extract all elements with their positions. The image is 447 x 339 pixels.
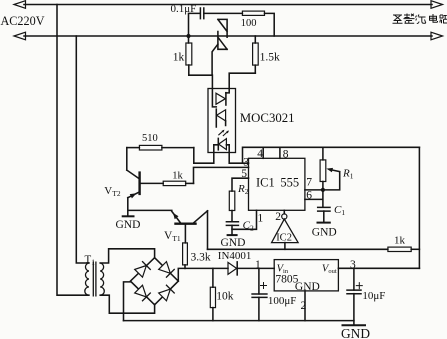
wire VT2 emitter to ground and VT1 [128, 198, 172, 217]
triac VS main [218, 19, 227, 49]
svg-text:MOC3021: MOC3021 [240, 111, 295, 125]
wire VT2 base to 1k [140, 182, 163, 184]
op-amp U1 MOC3021 optocoupler box [208, 89, 236, 153]
svg-text:2: 2 [275, 211, 281, 223]
svg-text:IC2: IC2 [276, 233, 292, 244]
resistor 1k (VT2 base) [163, 181, 186, 185]
wire snubber left riser [189, 13, 200, 36]
transistor Q1 VT1 [176, 222, 196, 224]
svg-text:7: 7 [306, 176, 312, 188]
ground GND (C1) [318, 222, 330, 224]
node plus sign 10uF [356, 283, 362, 289]
diode IN4001 [228, 262, 237, 274]
resistor 10k [210, 287, 215, 307]
wire 555 pin4 stub [262, 147, 264, 158]
diode bridge bottom-left [135, 285, 151, 301]
svg-text:5: 5 [241, 168, 247, 180]
svg-text:GND: GND [312, 227, 337, 239]
wire 1.5k bottom to MOC [226, 73, 255, 93]
capacitor C2 [226, 222, 238, 226]
svg-text:1k: 1k [172, 171, 183, 182]
wire secondary top to bridge [100, 249, 154, 263]
svg-text:IC1 555: IC1 555 [256, 176, 299, 190]
transistor Q2 VT2 [127, 148, 139, 179]
svg-text:6: 6 [306, 189, 312, 201]
svg-text:GND: GND [116, 219, 141, 231]
wire 1k bottom to gate node [189, 74, 212, 76]
wire 555 pin6 [305, 190, 323, 207]
svg-text:0.1μF: 0.1μF [171, 3, 197, 15]
node plus sign 100uF [261, 283, 267, 289]
wire VT1 base to 3.3k [184, 225, 186, 243]
svg-text:1k: 1k [394, 234, 406, 246]
wire R2 to 555 [232, 178, 249, 191]
wire 10k tap [212, 268, 214, 287]
triac MOC internal lower diode [217, 110, 226, 121]
svg-text:10k: 10k [216, 290, 234, 302]
svg-text:4: 4 [257, 148, 263, 160]
wire line1 to transformer primary bottom [57, 5, 89, 296]
svg-text:2: 2 [301, 300, 307, 312]
svg-text:AC220V: AC220V [1, 14, 45, 28]
resistor 510 [127, 147, 140, 149]
node junction dot pin7 [321, 188, 325, 192]
op-amp U2 IC1 555 box [249, 158, 305, 210]
resistor 1k (pullup) [388, 247, 411, 251]
transformer T1 core [93, 262, 96, 296]
svg-text:GND: GND [295, 281, 320, 293]
wire AC line 2 [24, 35, 432, 37]
node right arrow line2 [431, 32, 443, 40]
node right arrow line1 [431, 1, 443, 9]
diode bridge top-right [159, 262, 175, 278]
triac MOC internal upper diode [216, 93, 225, 104]
wire secondary bottom to bridge [100, 282, 154, 321]
node MOC emission arrows [219, 131, 228, 136]
svg-text:IN4001: IN4001 [218, 250, 252, 262]
wire VT1 collector down to trigger line [207, 211, 209, 250]
svg-text:3: 3 [243, 157, 249, 169]
wire bridge plus output [178, 268, 228, 281]
wire LED anode to 555 pin3 [229, 145, 248, 163]
resistor 1.5k [254, 36, 256, 43]
node left arrow line2 [14, 32, 26, 40]
wire 1k to 555 [194, 167, 249, 183]
wire 7805 pin2 ground [304, 291, 306, 321]
svg-text:GND: GND [341, 326, 370, 339]
wire 10uF tap [353, 268, 355, 290]
wire cap to resistor 100 [204, 12, 243, 14]
transformer T1 secondary [100, 263, 104, 295]
resistor 1k (left, line2 to gate) [188, 36, 190, 43]
svg-text:510: 510 [142, 133, 158, 144]
svg-text:100μF: 100μF [268, 295, 297, 307]
wire triac gate [212, 44, 218, 75]
svg-text:1: 1 [255, 259, 261, 271]
ground GND (VT2) [123, 215, 134, 217]
transformer T1 primary [85, 263, 89, 295]
svg-text:3.3k: 3.3k [191, 251, 211, 263]
wire LED cathode down-left [194, 145, 214, 163]
svg-text:GND: GND [221, 237, 246, 249]
svg-text:100: 100 [241, 18, 257, 29]
wire +5V top rail [243, 147, 420, 163]
ground GND (C2) [228, 234, 237, 236]
capacitor 100uF [252, 294, 267, 297]
node junction dot snubber on line2 [186, 34, 190, 38]
wire 100uF tap [258, 268, 260, 294]
wire bottom ground rail [124, 320, 354, 322]
ground GND (bottom right) [343, 324, 366, 326]
op-amp U3 IC2 inverter [283, 210, 285, 214]
node bridge diamond [130, 258, 178, 305]
node left arrow line1 [14, 1, 26, 9]
wire 555 pin8 stub [279, 147, 281, 158]
wire line2 to transformer primary top [76, 36, 89, 263]
wire trigger line to 1k pullup [208, 248, 388, 250]
wire 555 output rail to 7805 [338, 267, 419, 269]
wire gate node into MOC [212, 75, 216, 107]
node label Chinese to-rectifier text [393, 14, 447, 24]
wire 555 pin7 [305, 189, 323, 191]
diode bridge top-left [135, 262, 151, 278]
resistor R1 potentiometer [322, 147, 324, 160]
svg-text:1.5k: 1.5k [260, 52, 280, 64]
wire +5V right rail [418, 147, 420, 268]
svg-text:1: 1 [258, 213, 264, 225]
wire AC line 1 (top) [24, 4, 432, 6]
capacitor 0.1uF [200, 8, 203, 19]
op-amp U4 7805 regulator box [274, 260, 338, 291]
resistor R2 [229, 191, 235, 210]
svg-text:1k: 1k [173, 51, 185, 63]
resistor 3.3k [183, 243, 188, 265]
wire resistor 100 to line2 [265, 13, 275, 36]
svg-text:8: 8 [283, 148, 289, 160]
capacitor C1 [318, 207, 330, 211]
diode bridge bottom-right [159, 285, 175, 301]
diode MOC LED [217, 138, 219, 149]
resistor 100 [242, 11, 264, 15]
capacitor 10uF [347, 290, 361, 294]
wire 555 pin1 to ground node [232, 210, 257, 229]
svg-text:10μF: 10μF [362, 290, 385, 302]
wire 510 feed riser [193, 148, 195, 164]
svg-text:3: 3 [350, 259, 356, 271]
